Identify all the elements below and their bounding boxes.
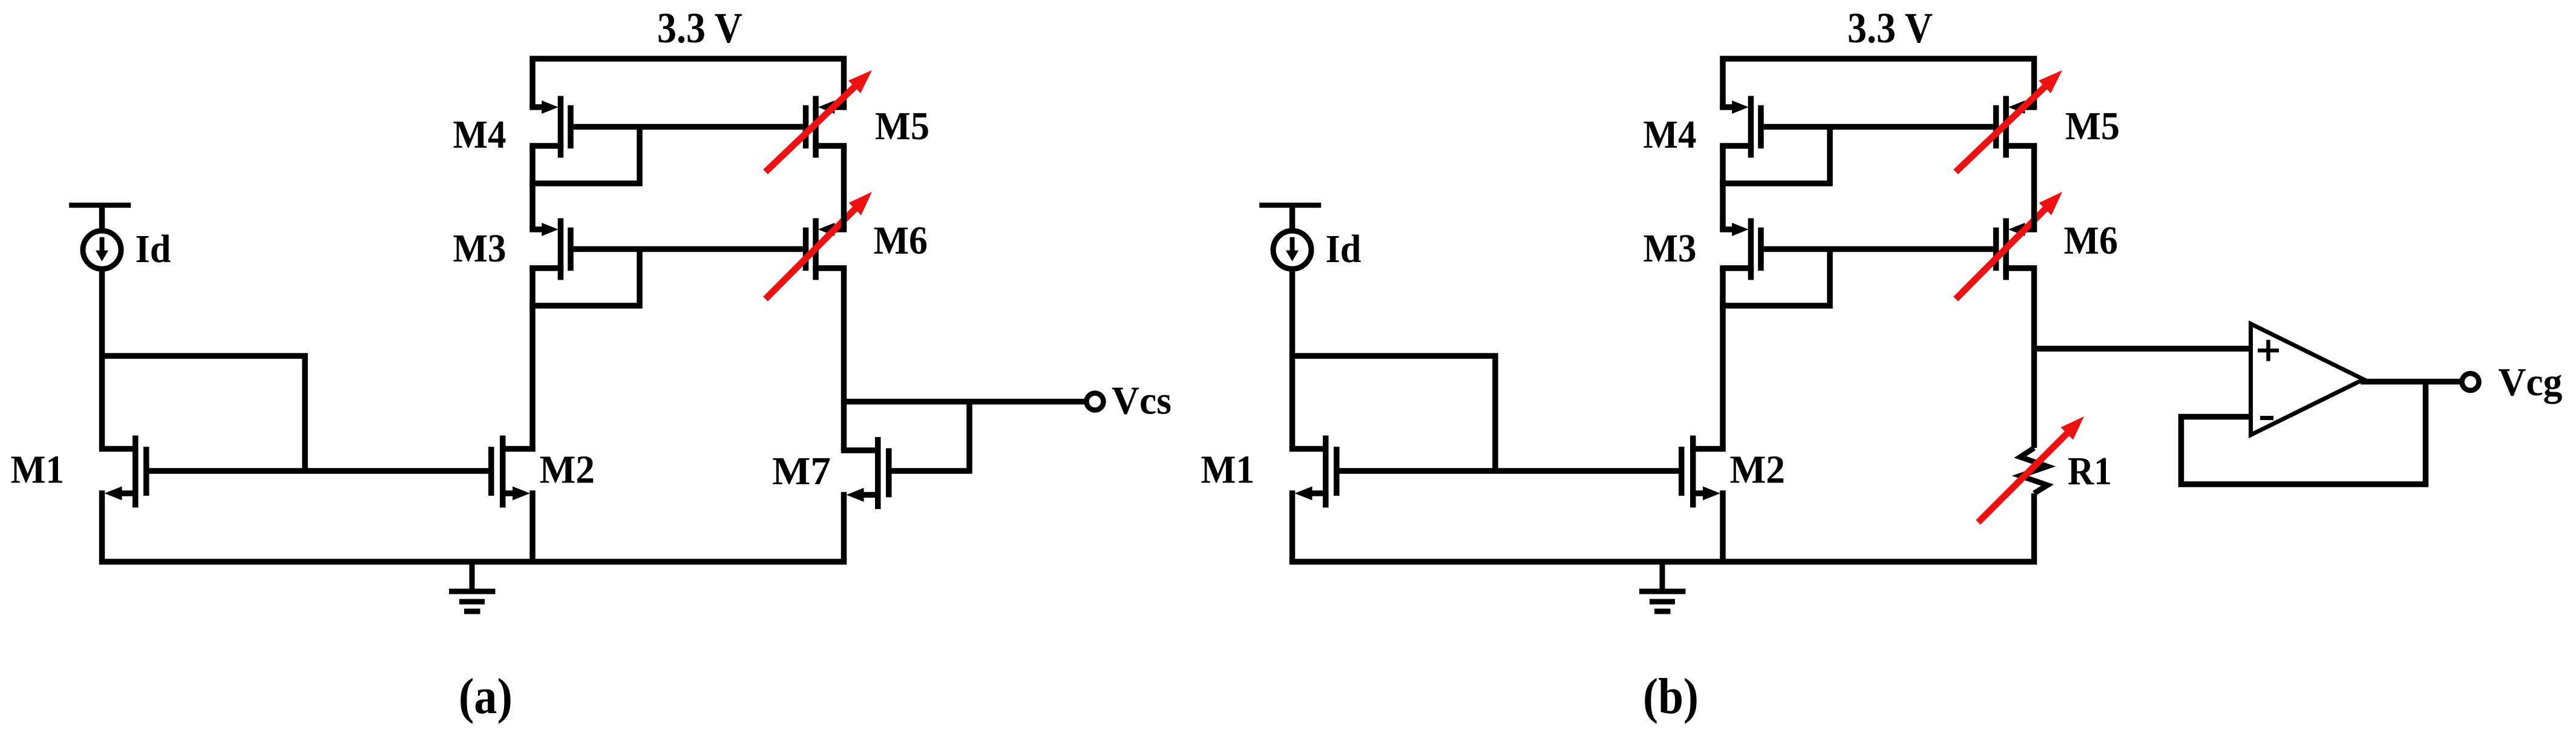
wire: M4 drain to M3 source (a) — [529, 146, 536, 229]
label Vcs (a) — [1112, 379, 1172, 423]
svg-text:(a): (a) — [459, 668, 513, 725]
wire: M6 drain to R1 top (b) — [2031, 268, 2037, 448]
label M3 (b) — [1644, 226, 1697, 271]
svg-text:M4: M4 — [453, 113, 506, 157]
svg-text:R1: R1 — [2068, 449, 2112, 493]
svg-text:M5: M5 — [2065, 104, 2120, 148]
svg-text:Vcg: Vcg — [2499, 360, 2563, 404]
svg-text:M7: M7 — [772, 449, 831, 493]
label M3 (a) — [453, 226, 506, 271]
wire: M3 gate to M6 gate (a) — [574, 246, 803, 252]
transistor M3 (b) — [1720, 219, 1763, 280]
wire: M6 drain to Vcs node (a) — [841, 268, 847, 402]
svg-text:M3: M3 — [453, 226, 506, 271]
svg-text:M1: M1 — [11, 447, 65, 492]
wire: M3 diode connection (b) — [1720, 249, 1830, 306]
transistor M1 (a) — [99, 436, 149, 508]
label M4 (a) — [453, 113, 506, 157]
label Id (b) — [1326, 227, 1362, 271]
wire: node to M7 drain (a) — [841, 402, 847, 451]
wire: M3 drain to M2 drain (b) — [1720, 268, 1726, 449]
svg-text:M6: M6 — [2064, 219, 2119, 263]
transistor M4 (b) — [1720, 96, 1763, 158]
wire: 3.3V supply rail (a) — [533, 59, 844, 107]
svg-text:Vcs: Vcs — [1112, 379, 1172, 423]
wire: M1 diode connection (a) — [102, 356, 306, 471]
label 3.3 V (b) — [1847, 5, 1933, 52]
resistor R1 (b) — [2020, 448, 2048, 493]
label Vcg (b) — [2499, 360, 2563, 404]
label M1 (b) — [1201, 447, 1255, 492]
label M1 (a) — [11, 447, 65, 492]
label R1 (b) — [2068, 449, 2112, 493]
wire: M4 diode connection (b) — [1720, 127, 1830, 184]
transistor M5 (a) — [803, 96, 847, 158]
transistor M6 (a) — [803, 219, 847, 280]
red arrow on M5 (a) — [765, 70, 872, 172]
current source Id (b) — [1259, 205, 1321, 269]
wire: M1 gate to M2 gate (a) — [149, 468, 489, 474]
terminal Vcg (b) — [2462, 373, 2479, 390]
svg-text:Id: Id — [1326, 227, 1362, 271]
svg-text:3.3 V: 3.3 V — [657, 5, 742, 52]
wire: node to op-amp + input (b) — [2034, 346, 2249, 352]
wire: Vcs node to M7 gate (a) — [888, 402, 969, 472]
svg-text:M2: M2 — [540, 447, 595, 492]
wire: Vcs node to terminal (a) — [844, 399, 1087, 405]
wire: M1 source to ground rail (b) — [1290, 490, 1296, 562]
svg-text:M6: M6 — [874, 219, 928, 263]
ground (a) — [449, 562, 496, 611]
wire: op-amp feedback loop (b) — [2181, 382, 2426, 485]
svg-text:M3: M3 — [1644, 226, 1697, 271]
wire: M1 source to ground rail (a) — [99, 490, 105, 562]
op-amp U1 (b) — [2251, 324, 2364, 435]
wire: M3 diode connection (a) — [529, 249, 640, 306]
transistor M2 (b) — [1679, 436, 1726, 508]
transistor M5 (b) — [1993, 96, 2037, 158]
label M4 (b) — [1644, 113, 1697, 157]
label 3.3 V (a) — [657, 5, 742, 52]
svg-text:M1: M1 — [1201, 447, 1255, 492]
wire: ground rail (a) — [99, 559, 847, 565]
red arrow on M6 (b) — [1956, 192, 2062, 299]
red arrow on R1 (b) — [1978, 416, 2084, 522]
wire: Id to M1 drain (a) — [99, 266, 105, 449]
red arrow on M6 (a) — [765, 192, 872, 299]
label (b) — [1643, 668, 1699, 725]
svg-text:3.3 V: 3.3 V — [1847, 5, 1933, 52]
wire: R1 to ground rail (b) — [2031, 493, 2037, 562]
wire: ground rail (b) — [1290, 559, 2037, 565]
transistor M4 (a) — [529, 96, 573, 158]
transistor M1 (b) — [1290, 436, 1340, 508]
wire: M4 gate to M5 gate (a) — [574, 124, 803, 130]
wire: op-amp output to Vcg (b) — [2361, 379, 2462, 385]
svg-text:M2: M2 — [1730, 447, 1786, 492]
svg-text:M4: M4 — [1644, 113, 1697, 157]
wire: M7 source to ground rail (a) — [841, 492, 847, 562]
wire: M5 drain to M6 source (a) — [841, 146, 847, 229]
label Id (a) — [136, 227, 171, 271]
transistor M2 (a) — [488, 436, 536, 508]
wire: M4 diode connection (a) — [529, 127, 640, 184]
wire: M2 source to ground rail (a) — [529, 490, 536, 562]
wire: M4 drain to M3 source (b) — [1720, 146, 1726, 229]
red arrow on M5 (b) — [1956, 70, 2062, 172]
svg-text:M5: M5 — [875, 104, 929, 148]
svg-text:Id: Id — [136, 227, 171, 271]
label M2 (b) — [1730, 447, 1786, 492]
transistor M7 (a) — [841, 437, 892, 509]
wire: Id to M1 drain (b) — [1290, 266, 1296, 449]
wire: 3.3V supply rail (b) — [1723, 59, 2034, 107]
label M6 (b) — [2064, 219, 2119, 263]
label M2 (a) — [540, 447, 595, 492]
wire: M5 drain to M6 source (b) — [2031, 146, 2037, 229]
label M5 (b) — [2065, 104, 2120, 148]
wire: M2 source to ground rail (b) — [1720, 490, 1726, 562]
ground (b) — [1639, 562, 1686, 611]
wire: M3 drain to M2 drain (a) — [529, 268, 536, 449]
wire: M4 gate to M5 gate (b) — [1764, 124, 1993, 130]
transistor M6 (b) — [1993, 219, 2037, 280]
label M7 (a) — [772, 449, 831, 493]
wire: M1 diode connection (b) — [1293, 356, 1496, 471]
wire: M1 gate to M2 gate (b) — [1340, 468, 1679, 474]
label M5 (a) — [875, 104, 929, 148]
terminal Vcs (a) — [1087, 393, 1104, 410]
current source Id (a) — [69, 205, 131, 269]
svg-text:(b): (b) — [1643, 668, 1699, 725]
transistor M3 (a) — [529, 219, 573, 280]
label M6 (a) — [874, 219, 928, 263]
label (a) — [459, 668, 513, 725]
wire: M3 gate to M6 gate (b) — [1764, 246, 1993, 252]
